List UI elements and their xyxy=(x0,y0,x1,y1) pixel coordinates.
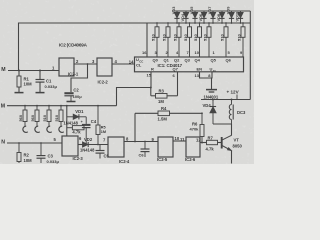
resistor R1 10M from M wire to ground xyxy=(18,71,20,77)
inverter gate IC2-3 xyxy=(62,136,78,156)
resistor R10 on counter output xyxy=(178,23,180,27)
resistor R15 on counter output xyxy=(242,23,244,27)
inverter gate IC2-2 xyxy=(97,58,112,76)
LED diode VD3 xyxy=(176,11,178,12)
resistor R6 470k from oscillator to output node xyxy=(201,113,203,124)
wire: R4 feedback drop xyxy=(134,113,136,141)
electrode probe tip xyxy=(47,126,52,132)
capacitor C6 on oscillator node xyxy=(144,142,146,149)
ground for R1 xyxy=(15,92,24,94)
ground for C2 xyxy=(67,101,76,103)
electrode probe tip xyxy=(59,126,64,132)
electrode probe resistor 560 xyxy=(36,106,38,110)
wire: IC2-1 output pin2 to IC2-2 input pin3 xyxy=(74,63,97,65)
wire: IC2-2 output pin4 to IC1 clock pin14 xyxy=(112,63,135,65)
electrode probe resistor 560 xyxy=(24,106,26,110)
capacitor C5 below IC2-4 input xyxy=(99,145,101,151)
resistor R8 on counter output xyxy=(156,23,158,27)
electrode probe resistor 510 xyxy=(60,106,62,110)
LED diode VD7 xyxy=(212,11,214,12)
diode VD1 1N4148 feedback xyxy=(67,116,73,118)
wire: vertical feedback net left of VD1 xyxy=(66,106,68,136)
resistor 4.7k parallel with VD1 xyxy=(67,127,73,129)
LED diode VD4 xyxy=(185,11,187,12)
resistor R13 on counter output xyxy=(208,23,210,27)
resistor R14 on counter output xyxy=(225,23,227,27)
ground for C1 xyxy=(36,92,45,94)
relay coil DC3 xyxy=(231,100,233,105)
inverter gate IC2-5 xyxy=(158,137,173,157)
capacitor C3 0.033u below N bus xyxy=(40,143,42,155)
wire: reset pin15 down-left to lower electrode bus xyxy=(117,72,152,106)
resistor R2 10M below N bus xyxy=(18,143,20,153)
inverter gate IC2-1 xyxy=(59,58,74,76)
capacitor C4 electrolytic on feedback node xyxy=(85,117,87,124)
wire: VCC pin16 up to top bus xyxy=(146,23,148,57)
wire: emitter down to bottom edge xyxy=(231,151,233,164)
transistor VT 8050 NPN xyxy=(221,137,223,149)
LED diode VD10 xyxy=(240,11,242,12)
resistor R11 on counter output xyxy=(189,23,191,27)
wire: Q7 pin6 down to R3 xyxy=(177,72,179,96)
LED diode VD8 xyxy=(221,11,223,12)
wire: N bus to IC2-3 input pin5 xyxy=(7,142,62,144)
wire: rail right edge down to +12V node line xyxy=(249,11,251,100)
capacitor C1 0.033u from M wire to ground xyxy=(39,71,41,80)
resistor R3 1M from reset wire to Q7 pin6 xyxy=(150,88,152,96)
resistor R9 on counter output xyxy=(167,23,169,27)
wire: IC2-3 output pin6 to diode VD2 xyxy=(78,144,83,146)
wire: IC2-4 output pin8 to IC2-5 input pin9 xyxy=(124,141,158,143)
wire: IC2-5 output pin10 to IC2-6 input pin11 xyxy=(173,140,186,142)
wire: +12V node line xyxy=(201,99,250,101)
IC1 CD4017 decade counter box xyxy=(135,57,244,72)
ground under IC1 xyxy=(206,89,217,91)
wire: long top bus from left corner to top-right corner xyxy=(19,23,251,71)
LED diode VD9 xyxy=(231,11,233,12)
wire: bottom of diode/coil to transistor collector xyxy=(213,123,232,125)
flyback diode VD11 1N4001 across relay coil xyxy=(212,100,214,107)
capacitor C2 100u electrolytic from gate wire to ground xyxy=(71,64,88,92)
LED anode rail at top right xyxy=(172,10,250,12)
electrode probe tip xyxy=(35,126,40,132)
electrode probe tip xyxy=(23,126,28,132)
resistor R4 1.5M feedback xyxy=(135,112,158,114)
resistor R7 4.7k to transistor base xyxy=(202,142,207,144)
diode VD2 1N4148 xyxy=(83,142,89,147)
inverter gate IC2-6 xyxy=(186,137,200,157)
wire: EN pin13 and Vss pin8 to ground xyxy=(200,72,213,78)
resistor R5 1M from electrode bus down xyxy=(97,106,99,125)
LED diode VD5 xyxy=(194,11,196,12)
LED diode VD6 xyxy=(203,11,205,12)
resistor R12 on counter output xyxy=(199,23,201,27)
electrode probe resistor 510 xyxy=(48,106,50,110)
wire: IC2-6 output pin12 to R7 xyxy=(200,142,207,144)
inverter gate IC2-4 xyxy=(108,137,124,157)
